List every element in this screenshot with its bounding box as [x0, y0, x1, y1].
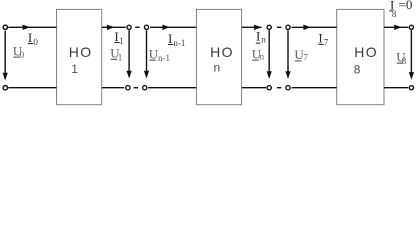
wire bottom rail segment 6 [384, 87, 408, 89]
wire bottom rail segment 4 [242, 87, 266, 89]
wire bottom rail segment 2 [102, 87, 124, 89]
node terminal top gap1 left [127, 25, 131, 29]
wire top rail segment 2 [102, 26, 126, 28]
svg-text:n: n [214, 61, 221, 75]
svg-text:HO: HO [210, 44, 234, 60]
port terminal input top [3, 25, 7, 29]
two-port network block HO8 [337, 9, 384, 104]
port terminal input bottom [3, 86, 7, 90]
svg-text:n: n [261, 34, 266, 44]
voltage arrow U1 [128, 30, 130, 71]
dash omitted chain bottom gap2 [277, 87, 281, 89]
label In-1 [168, 31, 186, 48]
voltage arrow U8 [410, 30, 412, 73]
voltage arrow Un [268, 30, 270, 72]
arrow I0 direction [23, 25, 31, 30]
port terminal output top [409, 25, 413, 29]
voltage arrow U0 [4, 31, 6, 74]
label I7 [318, 31, 329, 48]
svg-text:7: 7 [303, 52, 308, 62]
svg-text:I: I [318, 31, 322, 46]
svg-text:1: 1 [118, 52, 123, 62]
svg-text:0: 0 [33, 37, 38, 47]
dash omitted chain top gap1 [135, 26, 140, 28]
label U8 [396, 49, 407, 66]
dash omitted chain bottom gap1 [134, 87, 139, 89]
arrow I8 direction [394, 25, 402, 30]
svg-text:n-1: n-1 [158, 53, 170, 63]
label U1 [110, 46, 122, 63]
wire bottom rail segment 1 [8, 87, 56, 89]
svg-text:0: 0 [20, 50, 25, 60]
label Un-1 [149, 46, 170, 63]
wire bottom rail segment 5 [292, 87, 337, 89]
node terminal top gap2 right [286, 25, 290, 29]
svg-text:I: I [28, 30, 32, 45]
node terminal bottom gap1 right [143, 86, 147, 90]
wire top rail segment 4 [242, 26, 262, 28]
wire top rail segment 1 [8, 26, 56, 28]
label U7 [294, 47, 308, 62]
voltage arrow Un-1 [146, 30, 148, 71]
two-port network block HO1 [57, 9, 102, 104]
node terminal top gap2 left [267, 25, 271, 29]
wire top rail segment 3 [150, 26, 196, 28]
dash omitted chain top gap2 [277, 26, 281, 28]
two-port network block HOn [196, 9, 241, 104]
svg-text:=0: =0 [399, 0, 413, 12]
voltage arrow U7 [287, 30, 289, 72]
arrow I7 direction [303, 25, 311, 30]
svg-text:n: n [260, 52, 265, 62]
wire top rail segment 5 [292, 26, 337, 28]
node terminal bottom gap2 right [286, 86, 290, 90]
label Un [252, 46, 265, 61]
svg-text:HO: HO [69, 44, 93, 60]
svg-text:n-1: n-1 [173, 38, 185, 48]
svg-text:I: I [168, 31, 172, 46]
svg-text:I: I [256, 28, 260, 43]
svg-text:I: I [114, 29, 118, 44]
svg-text:7: 7 [324, 38, 329, 48]
svg-text:8: 8 [402, 56, 407, 66]
svg-text:1: 1 [71, 62, 78, 76]
svg-text:1: 1 [119, 36, 124, 46]
node terminal bottom gap2 left [267, 86, 271, 90]
arrow I1 direction [107, 25, 115, 30]
node terminal top gap1 right [144, 25, 148, 29]
wire bottom rail segment 3 [148, 87, 196, 89]
label I0 [28, 30, 39, 47]
node terminal bottom gap1 left [126, 86, 130, 90]
svg-text:8: 8 [354, 63, 361, 77]
label I8 = 0 [389, 0, 412, 19]
arrow In-1 direction [162, 25, 170, 30]
arrow In direction [254, 25, 262, 30]
wire top rail segment 6 [384, 26, 408, 28]
label In [256, 28, 266, 44]
label U0 [13, 43, 25, 60]
label I1 [114, 29, 123, 46]
svg-text:HO: HO [354, 44, 378, 60]
svg-text:8: 8 [392, 9, 397, 19]
port terminal output bottom [409, 86, 413, 90]
